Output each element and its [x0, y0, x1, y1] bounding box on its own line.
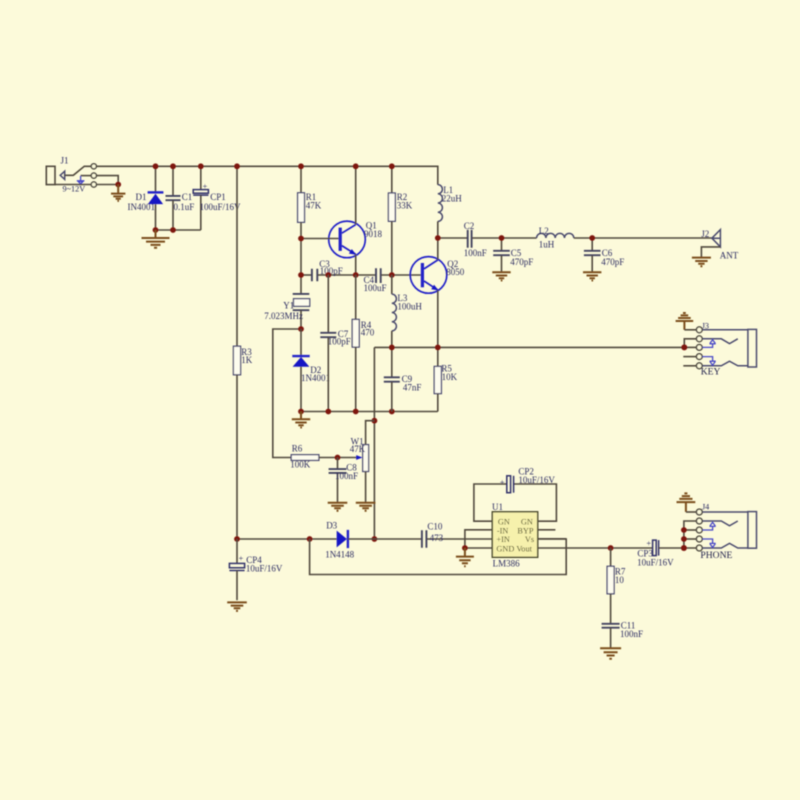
resistor R5: [437, 347, 439, 366]
ground C11: [600, 648, 621, 659]
wire BYP stub: [538, 529, 556, 531]
J4 switch contact upper: [702, 521, 737, 526]
svg-text:+: +: [239, 554, 244, 563]
capacitor CP4 (polarized): [236, 539, 238, 563]
pin circle J3-2: [696, 336, 702, 342]
junction C4 row / R2 / L3: [389, 272, 395, 278]
wire CP3 to J4: [659, 547, 697, 549]
svg-text:KEY: KEY: [701, 367, 721, 378]
svg-text:470pF: 470pF: [601, 257, 624, 267]
svg-text:Vout: Vout: [516, 544, 532, 553]
ground at J1: [111, 185, 125, 201]
pin circle J3-3: [696, 345, 702, 351]
svg-text:R6: R6: [292, 444, 303, 454]
junction W1 tap: [372, 418, 378, 424]
wire ground rail: [301, 411, 438, 413]
svg-text:0.1uF: 0.1uF: [174, 202, 195, 212]
svg-text:470: 470: [361, 328, 375, 338]
junction key row L3/C9: [389, 345, 395, 351]
wire D3 to C10: [348, 538, 422, 540]
wire Q1 emitter down: [355, 254, 357, 275]
svg-text:J1: J1: [61, 156, 69, 166]
svg-text:8050: 8050: [446, 267, 465, 277]
svg-text:+: +: [500, 478, 505, 487]
junction bottom rail C1: [170, 227, 176, 233]
ground C5: [492, 272, 510, 280]
ground CP4: [227, 602, 247, 611]
wire Q2 emitter: [437, 290, 439, 347]
wire L1 bottom: [437, 221, 439, 238]
connector J1 plug tip triangle: [60, 171, 64, 179]
svg-text:+: +: [203, 182, 208, 191]
ground C6: [583, 272, 601, 280]
junction Q1 base / R1: [298, 236, 304, 242]
svg-text:BYP: BYP: [517, 526, 534, 535]
J4 switch contact lower: [702, 543, 748, 548]
junction top rail R3: [234, 163, 240, 169]
resistor R6: [291, 455, 319, 461]
resistor R3: [236, 166, 238, 346]
wire Q1 base: [301, 238, 339, 240]
svg-text:J3: J3: [702, 321, 709, 330]
svg-text:GND: GND: [496, 544, 514, 553]
svg-text:100nF: 100nF: [620, 629, 643, 639]
svg-text:IN4001: IN4001: [128, 202, 156, 212]
svg-text:47nF: 47nF: [403, 383, 422, 393]
svg-text:+: +: [646, 539, 651, 548]
connector J2 antenna: [712, 230, 721, 247]
svg-text:9~12V: 9~12V: [63, 185, 86, 194]
wire Q1 collector to rail: [355, 166, 357, 224]
resistor R4: [355, 275, 357, 319]
junction -IN/GND ground: [462, 545, 468, 551]
junction key row Q2 emitter / R5: [435, 345, 441, 351]
junction Vout / R7: [608, 545, 614, 551]
pin circle J4-5: [696, 545, 702, 551]
inductor L2: [537, 233, 574, 238]
junction C3 row / R1 column: [298, 272, 304, 278]
wire C3 to C4: [318, 274, 376, 276]
junction Vs return tap: [307, 536, 313, 542]
wire J4 pin1 to ground: [686, 511, 696, 513]
pin circle J1-1: [91, 164, 96, 169]
svg-text:10uF/16V: 10uF/16V: [518, 475, 555, 485]
svg-text:CP1: CP1: [210, 192, 226, 202]
wire gain pin8 riser: [514, 484, 557, 521]
svg-text:47K: 47K: [350, 444, 366, 454]
junction C5 tap: [499, 235, 505, 241]
junction top rail CP1: [198, 163, 204, 169]
diode D3: [337, 531, 347, 548]
pin circle J3-4: [696, 354, 702, 360]
svg-text:U1: U1: [492, 502, 503, 512]
wire Vout row: [538, 547, 653, 549]
junction ground rail R4: [353, 409, 359, 415]
wire gain pin1 riser: [474, 484, 507, 521]
pin circle J4-1: [696, 509, 702, 515]
svg-text:D3: D3: [326, 521, 337, 531]
svg-text:J2: J2: [701, 229, 709, 239]
wire J3 pin4 stub (nc): [683, 356, 696, 358]
svg-text:GN: GN: [498, 518, 510, 527]
ground C8: [328, 503, 348, 511]
wire D3 row from R3: [237, 538, 337, 540]
svg-text:100uF/16V: 100uF/16V: [200, 202, 242, 212]
wire J2 to ground: [701, 247, 720, 258]
capacitor C11: [602, 624, 620, 628]
wire power bottom rail: [156, 229, 201, 231]
svg-text:10uF/16V: 10uF/16V: [246, 563, 283, 573]
junction C3 row / C7: [325, 272, 331, 278]
op-amp U1 LM386 body: [492, 512, 537, 558]
junction C3 row / Q1 emitter / R4: [353, 272, 359, 278]
svg-text:Y1: Y1: [283, 301, 294, 311]
capacitor C5: [501, 238, 503, 251]
junction top rail D1: [153, 163, 159, 169]
connector J3 ground (above): [676, 313, 694, 330]
capacitor C4: [376, 268, 381, 283]
J4 tip arrow lower (blue): [702, 539, 715, 547]
resistor R7: [610, 548, 612, 566]
junction bottom rail D1: [153, 227, 159, 233]
wire Y1 node to left column: [273, 329, 301, 458]
crystal Y1: [293, 293, 310, 295]
wire +V top rail: [97, 166, 438, 185]
pin circle J1-2: [91, 173, 96, 178]
capacitor C9: [391, 347, 393, 377]
capacitor C6: [591, 238, 593, 251]
junction top rail C1: [170, 163, 176, 169]
capacitor C10: [422, 530, 427, 548]
svg-text:+IN: +IN: [496, 535, 509, 544]
wire C4 to Q2 base: [381, 274, 421, 276]
connector J3 body: [748, 329, 757, 367]
wire J1 middle pin stub: [81, 175, 91, 177]
wire J4 pin1 to body: [702, 511, 748, 513]
svg-text:GN: GN: [521, 518, 533, 527]
junction top rail R1: [298, 163, 304, 169]
svg-text:22uH: 22uH: [442, 194, 463, 204]
diode D1: [155, 166, 157, 192]
svg-text:LM386: LM386: [493, 559, 520, 569]
wire J1 sleeve from body: [55, 184, 91, 186]
wire RF row L1 to C2: [438, 237, 467, 239]
J3 switch contact upper: [702, 339, 737, 344]
wire J4 pin3 stub: [684, 529, 696, 531]
wire C10 to +IN: [427, 538, 492, 540]
junction ground rail D2: [298, 409, 304, 415]
svg-text:47K: 47K: [306, 201, 322, 211]
wire J1 pin3 to ground node: [97, 184, 118, 186]
capacitor CP2 (polarized): [507, 476, 511, 493]
svg-text:9018: 9018: [364, 229, 383, 239]
junction C6 tap: [589, 235, 595, 241]
pin circle J3-5: [696, 363, 702, 369]
wire Q2 collector: [437, 238, 439, 260]
J3 tip arrow upper (blue): [702, 340, 715, 348]
capacitor C2: [468, 230, 472, 248]
capacitor CP1 (polarized): [200, 166, 202, 189]
junction ground rail C7: [325, 409, 331, 415]
ground U1: [456, 548, 474, 566]
svg-text:100nF: 100nF: [335, 471, 358, 481]
wire GND pin stub: [465, 547, 492, 549]
svg-text:10uF/16V: 10uF/16V: [637, 558, 674, 568]
svg-text:1uH: 1uH: [539, 239, 555, 249]
J1 switch contact (blue): [77, 176, 85, 181]
wire Vs feed: [538, 538, 567, 540]
wire J4 pin4 stub: [684, 538, 696, 540]
pin circle J1-3: [91, 182, 96, 187]
J3 tip arrow lower (blue): [702, 357, 715, 366]
transistor Q1: [329, 221, 366, 258]
svg-text:D1: D1: [136, 192, 147, 202]
pin circle J4-2: [696, 518, 702, 524]
potentiometer W1: [363, 445, 369, 472]
svg-text:-IN: -IN: [497, 526, 509, 535]
wire W1 top to tap: [366, 421, 375, 445]
svg-text:33K: 33K: [397, 201, 413, 211]
junction top rail Q1 collector: [353, 163, 359, 169]
svg-text:PHONE: PHONE: [700, 550, 732, 561]
svg-text:C1: C1: [182, 192, 193, 202]
svg-text:100uH: 100uH: [397, 302, 422, 312]
junction J4 bus main: [681, 545, 687, 551]
wire J3 pin1 to ground: [684, 329, 696, 331]
svg-text:470pF: 470pF: [510, 257, 533, 267]
svg-text:J4: J4: [702, 503, 709, 512]
J3 switch contact lower: [702, 361, 748, 366]
pin circle J3-1: [696, 327, 702, 333]
svg-text:10K: 10K: [442, 372, 458, 382]
svg-text:100K: 100K: [290, 459, 311, 469]
svg-text:1N4001: 1N4001: [301, 373, 330, 383]
svg-text:L2: L2: [539, 226, 549, 236]
wire C2 to L2: [472, 237, 536, 239]
diode D2: [300, 329, 302, 356]
svg-text:100pF: 100pF: [328, 337, 351, 347]
svg-text:100nF: 100nF: [464, 248, 487, 258]
svg-text:ANT: ANT: [720, 250, 739, 260]
connector J4 ground (above): [677, 493, 696, 512]
junction R6 / C8: [335, 455, 341, 461]
capacitor CP3 (polarized): [653, 540, 657, 556]
svg-text:100pF: 100pF: [320, 266, 343, 276]
svg-text:10: 10: [615, 575, 625, 585]
svg-text:100uF: 100uF: [364, 283, 387, 293]
resistor R1: [300, 166, 302, 193]
wire J4 left bus: [684, 521, 696, 548]
wire J3 pin3 stub: [684, 346, 696, 348]
wire R6 to W1: [319, 457, 357, 459]
pin circle J4-3: [696, 527, 702, 533]
ground J2: [692, 258, 711, 267]
wire J3 pin1 to body: [702, 329, 748, 331]
J4 tip arrow upper (blue): [702, 522, 715, 530]
junction key / J3: [681, 344, 687, 350]
wire L2 to C6: [574, 237, 712, 239]
svg-text:473: 473: [430, 533, 444, 543]
junction L1 / Q2 collector / C2: [435, 235, 441, 241]
inductor L3: [391, 275, 393, 294]
junction J1 ground: [115, 182, 121, 188]
capacitor C3: [301, 274, 311, 276]
junction J4 bus pin4: [681, 536, 687, 542]
ground power rail: [142, 230, 170, 248]
junction sidetone / D3 row: [372, 536, 378, 542]
wire Vs return path: [310, 539, 567, 575]
W1 wiper arrow: [356, 455, 362, 460]
connector J4 body: [748, 512, 757, 549]
svg-text:1N4148: 1N4148: [325, 550, 354, 560]
wire J3 pin2 bus: [684, 339, 696, 348]
wire J3 pin5 stub (nc): [683, 365, 696, 367]
svg-text:Vs: Vs: [525, 535, 534, 544]
wire W1 bottom to ground: [365, 472, 367, 503]
capacitor C8: [337, 458, 339, 469]
capacitor C1: [172, 166, 174, 195]
resistor R2: [391, 166, 393, 193]
wire -IN to GND tie: [465, 530, 492, 548]
ground W1: [356, 503, 376, 511]
junction ground rail C9: [389, 409, 395, 415]
svg-text:7.023MHz: 7.023MHz: [264, 311, 303, 321]
ground main rail: [292, 412, 310, 428]
junction R3 / CP4 / D3 row: [234, 536, 240, 542]
transistor Q2: [410, 257, 447, 294]
junction J4 bus pin3: [681, 527, 687, 533]
pin circle J4-4: [696, 536, 702, 542]
wire sidetone drop: [373, 347, 375, 539]
junction top rail R2: [389, 163, 395, 169]
svg-text:C10: C10: [427, 521, 443, 531]
junction Y1 / D2: [298, 326, 304, 332]
wire key row: [374, 346, 684, 348]
wire J1 tip to pin1: [65, 166, 91, 175]
inductor L1: [438, 185, 443, 222]
wire J1 pin2 to ground bus: [97, 176, 118, 185]
capacitor C7: [327, 275, 329, 333]
svg-text:C2: C2: [464, 221, 475, 231]
connector J1 body: [46, 166, 55, 184]
svg-text:1K: 1K: [241, 355, 253, 365]
